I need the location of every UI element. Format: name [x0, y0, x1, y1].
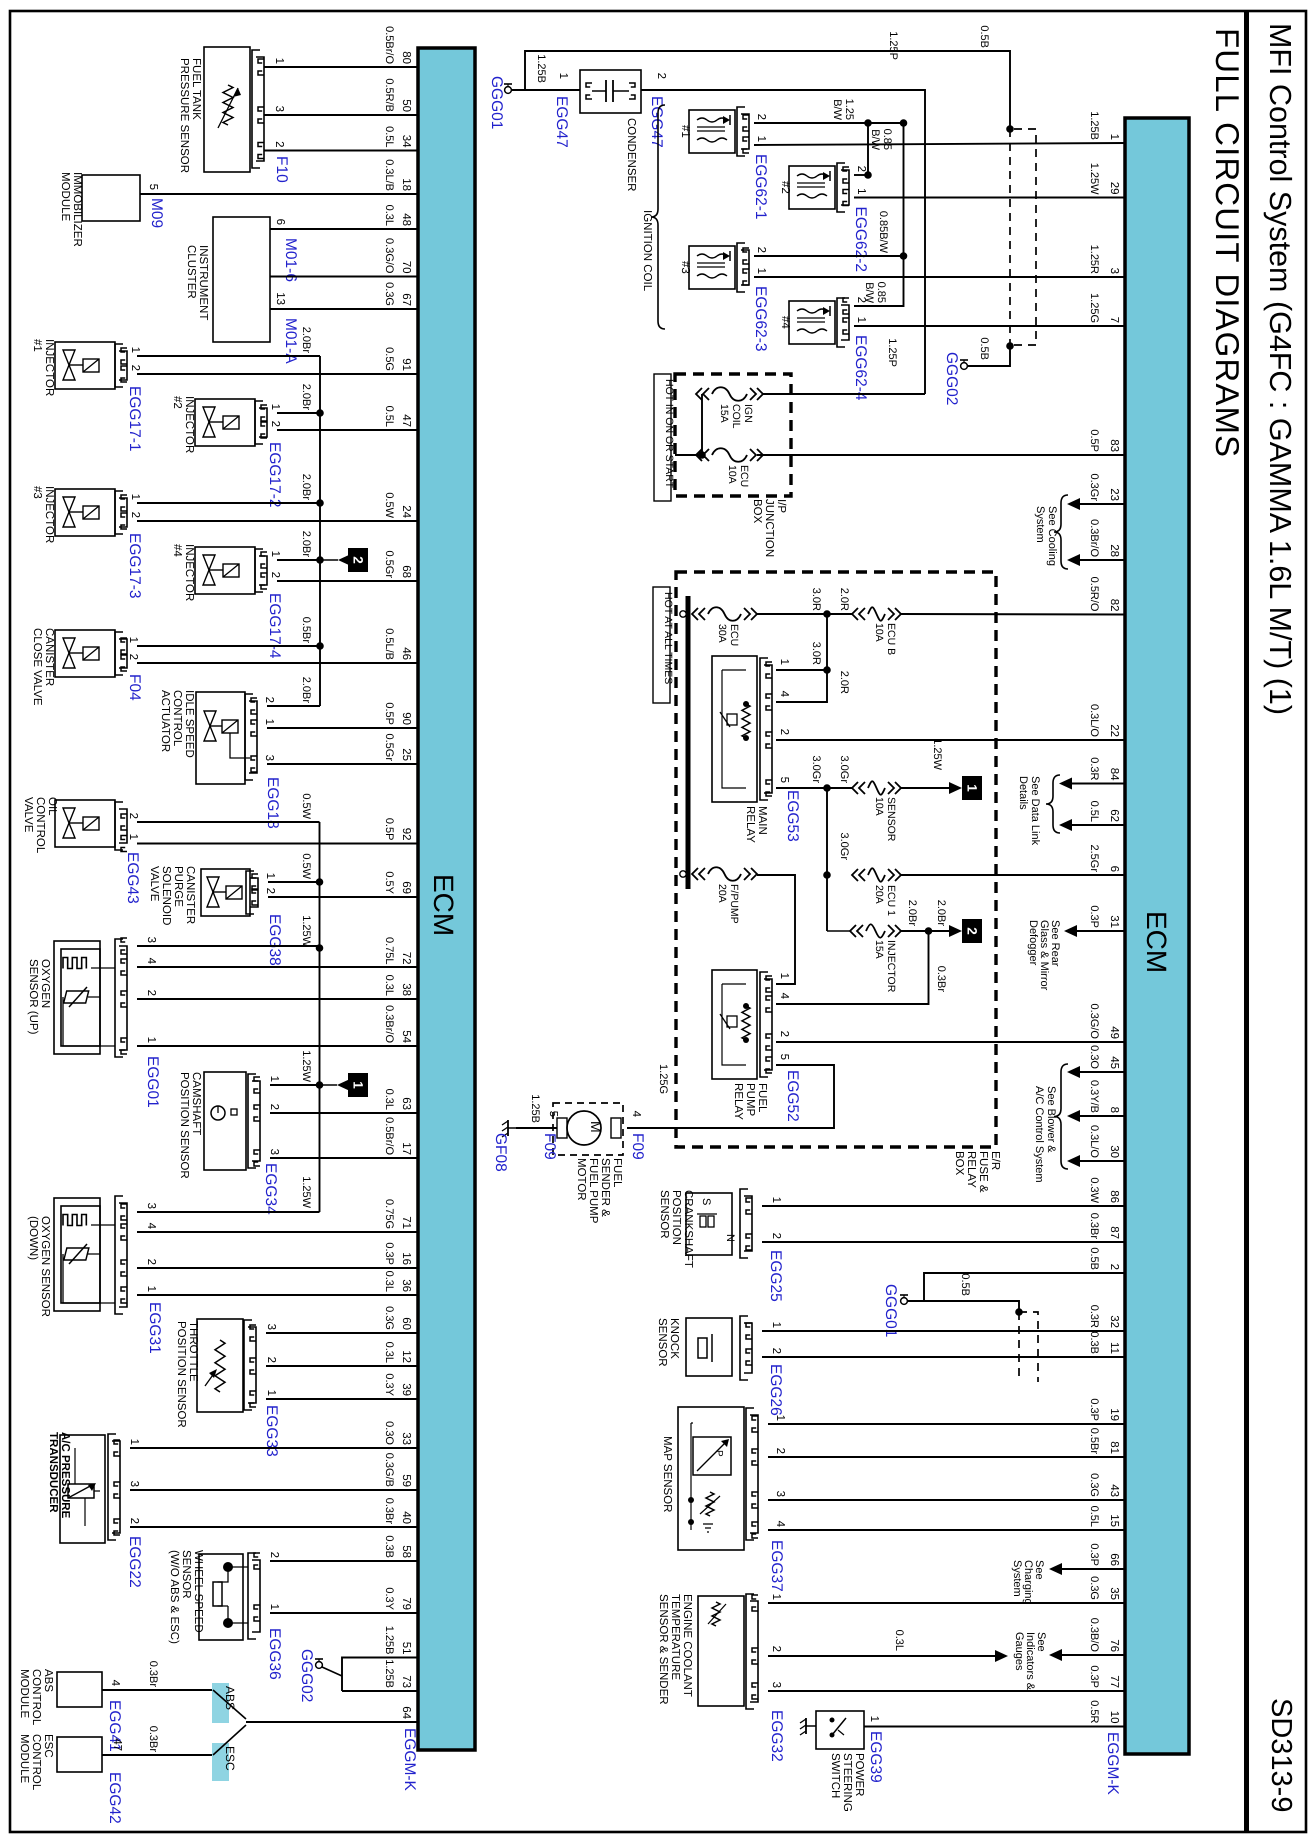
svg-text:2: 2	[778, 1031, 790, 1037]
svg-text:EGG47: EGG47	[648, 96, 665, 148]
wire EGG32 pin2 to indicators 0.3L	[768, 1630, 1008, 1662]
wire stub ECM 76 to indicators	[1049, 1649, 1125, 1661]
wire EGG37 pin4 to ECM 15	[768, 1529, 1125, 1531]
label 1.25W at O2 down branch	[300, 1176, 312, 1208]
svg-text:EGG43: EGG43	[124, 852, 141, 904]
svg-text:2.0Br: 2.0Br	[935, 900, 947, 927]
svg-text:0.3B: 0.3B	[1088, 1331, 1100, 1354]
svg-text:0.5Br/O: 0.5Br/O	[383, 1117, 395, 1155]
svg-text:2: 2	[145, 990, 157, 996]
wire EGG38 pin1 to 0.5W bus	[268, 853, 323, 885]
svg-text:4: 4	[778, 993, 790, 1000]
wire ECM 73 to ground GGG02	[342, 1690, 418, 1692]
svg-text:3: 3	[263, 755, 275, 761]
svg-text:1.25P: 1.25P	[886, 338, 898, 367]
svg-text:GF08: GF08	[492, 1133, 509, 1172]
title: SD313-9	[1265, 1698, 1297, 1812]
svg-text:1: 1	[273, 58, 285, 64]
svg-text:1.25W: 1.25W	[300, 915, 312, 947]
svg-text:36: 36	[400, 1279, 412, 1292]
wire coil2 pin2 to B/W bus	[854, 123, 893, 179]
svg-text:0.5W: 0.5W	[300, 853, 312, 879]
option label ABS	[212, 1683, 237, 1723]
svg-text:EGG36: EGG36	[266, 1628, 283, 1680]
ground GGG02 (left)	[298, 1649, 342, 1702]
wire F04 pin2 to ECM 46	[137, 662, 418, 664]
svg-text:0.85B/W: 0.85B/W	[869, 129, 893, 151]
svg-text:2.0Br: 2.0Br	[300, 384, 312, 411]
wire EGG32 pin3 to ECM 77	[768, 1690, 1125, 1692]
svg-text:0.5P: 0.5P	[1088, 429, 1100, 452]
svg-text:F04: F04	[126, 674, 143, 701]
see indicators gauges note	[1013, 1632, 1047, 1691]
svg-text:EGG25: EGG25	[767, 1250, 784, 1302]
svg-text:3: 3	[128, 1481, 140, 1487]
svg-text:2: 2	[855, 166, 867, 172]
svg-text:0.5Br/O: 0.5Br/O	[383, 26, 395, 64]
svg-text:0.3L/O: 0.3L/O	[1088, 1125, 1100, 1158]
wire stub ECM 45 to blower	[1067, 1066, 1125, 1078]
svg-text:GGG02: GGG02	[943, 352, 960, 405]
svg-text:25: 25	[400, 748, 412, 761]
svg-text:15: 15	[1108, 1514, 1120, 1527]
wire injector4 pin2 to ECM 68	[277, 580, 418, 582]
svg-text:3: 3	[273, 106, 285, 112]
svg-text:4: 4	[109, 1680, 121, 1687]
svg-text:2.0Br: 2.0Br	[300, 677, 312, 704]
svg-text:83: 83	[1108, 439, 1120, 452]
MAP sensor EGG37	[661, 1407, 786, 1592]
svg-text:EGG47: EGG47	[553, 96, 570, 148]
svg-text:EGGM-K: EGGM-K	[1104, 1732, 1121, 1796]
wire EGG43 pin2 to 0.5W bus	[137, 793, 320, 822]
svg-text:0.5L: 0.5L	[1088, 1506, 1100, 1527]
ignition coil #4 EGG62-4	[779, 297, 869, 401]
wire EGG18 pin3 to ECM 25	[267, 763, 418, 765]
svg-text:77: 77	[1108, 1675, 1120, 1688]
svg-text:1: 1	[855, 317, 867, 323]
svg-text:50: 50	[400, 99, 412, 112]
svg-text:1: 1	[145, 1286, 157, 1292]
ground GGG01 (knock shield)	[882, 1284, 908, 1337]
svg-text:22: 22	[1108, 724, 1120, 737]
A/C pressure transducer EGG22	[47, 1432, 143, 1588]
svg-text:2.0Br: 2.0Br	[300, 327, 312, 354]
wire injector4 pin1 to 2.0Br bus	[277, 531, 324, 564]
svg-text:1.25W: 1.25W	[300, 1176, 312, 1208]
camshaft position sensor EGG34	[178, 1072, 280, 1215]
svg-text:HOT IN ON OR START: HOT IN ON OR START	[663, 379, 675, 489]
svg-text:6: 6	[274, 219, 286, 225]
option label ESC	[212, 1743, 237, 1781]
svg-text:8: 8	[1108, 1107, 1120, 1113]
svg-text:23: 23	[1108, 488, 1120, 501]
svg-text:1: 1	[755, 268, 767, 274]
fuel tank pressure sensor F10	[178, 47, 290, 183]
wire GF08 to fuel pump pin5	[516, 1094, 557, 1128]
svg-text:EGG62-1: EGG62-1	[752, 154, 769, 219]
svg-text:47: 47	[111, 1738, 123, 1751]
svg-text:13: 13	[274, 292, 286, 305]
svg-text:3: 3	[770, 1682, 782, 1688]
svg-text:0.3G/O: 0.3G/O	[383, 238, 395, 274]
svg-text:0.5R: 0.5R	[1088, 1700, 1100, 1723]
svg-text:1: 1	[127, 834, 139, 840]
svg-text:0.75G: 0.75G	[383, 1199, 395, 1229]
svg-text:1: 1	[128, 1439, 140, 1445]
wire stub ECM 66 to charging system	[1049, 1563, 1125, 1575]
connector label EGGM-K (left bar)	[401, 1728, 418, 1792]
wire coil4 pin2 to B/W bus	[854, 123, 904, 306]
svg-text:1: 1	[557, 73, 569, 79]
svg-text:0.3Y: 0.3Y	[383, 1373, 395, 1396]
svg-text:2.0R: 2.0R	[838, 671, 850, 694]
svg-text:EGG38: EGG38	[266, 914, 283, 966]
splice symbol 1 (right)	[901, 738, 982, 800]
svg-text:67: 67	[400, 293, 412, 306]
svg-text:60: 60	[400, 1317, 412, 1330]
svg-text:46: 46	[400, 647, 412, 660]
ECM connector bar (right)	[1125, 118, 1189, 1754]
E/R fuse and relay box (dashed)	[676, 572, 1001, 1193]
svg-text:2: 2	[755, 114, 767, 120]
svg-text:F10: F10	[273, 156, 290, 183]
right ECM pin number and wire code labels	[1088, 111, 1120, 1723]
ground GGG02 (top right)	[943, 337, 990, 405]
2.0Br injector common bus wire	[319, 356, 321, 706]
svg-text:80: 80	[400, 51, 412, 64]
svg-text:2: 2	[269, 572, 281, 578]
wire injector2 pin1 to 2.0Br bus	[277, 384, 324, 417]
svg-text:31: 31	[1108, 915, 1120, 928]
wire ECM 51 to ground GGG02	[342, 1658, 418, 1692]
wire EGG22 pin1 to ECM 33	[130, 1447, 418, 1449]
title: MFI Control System	[1263, 23, 1297, 715]
wire F04 pin1 to 0.5Br bus	[137, 617, 324, 650]
svg-text:0.3O: 0.3O	[1088, 1045, 1100, 1069]
svg-text:17: 17	[400, 1142, 412, 1155]
wire EGG33 pin1 to ECM 39	[266, 1398, 418, 1400]
svg-text:EGG17-3: EGG17-3	[126, 533, 143, 598]
svg-text:79: 79	[400, 1597, 412, 1610]
connector label EGG31	[146, 1302, 163, 1354]
svg-text:2: 2	[127, 813, 139, 819]
svg-text:0.3G: 0.3G	[383, 282, 395, 306]
I/P junction box (dashed)	[675, 374, 791, 557]
fuse ECU 30A	[692, 607, 757, 646]
svg-text:40: 40	[400, 1511, 412, 1524]
see data link details note	[1017, 775, 1060, 846]
svg-text:1: 1	[351, 1081, 366, 1089]
wire F/PUMP fuse to fuel pump relay pin1	[757, 875, 795, 984]
svg-text:0.3B/O: 0.3B/O	[1088, 1618, 1100, 1653]
svg-text:0.75L: 0.75L	[383, 937, 395, 965]
svg-text:2.0Br: 2.0Br	[300, 531, 312, 558]
wire EGG43 pin1 to ECM 92	[137, 843, 418, 845]
svg-text:ECM: ECM	[1141, 911, 1172, 973]
knock sensor EGG26	[656, 1316, 784, 1416]
svg-text:S: S	[700, 1198, 712, 1205]
svg-text:1: 1	[129, 494, 141, 500]
wire EGG36 pin1 to ECM 79	[270, 1612, 418, 1614]
svg-text:EGG62-4: EGG62-4	[852, 335, 869, 401]
svg-text:91: 91	[400, 358, 412, 371]
wire F10-2 to ECM 34	[264, 150, 418, 152]
instrument cluster M01	[185, 217, 299, 364]
ESC control module	[18, 1734, 123, 1824]
svg-text:16: 16	[400, 1252, 412, 1265]
svg-text:2.0Br: 2.0Br	[300, 474, 312, 501]
svg-text:1: 1	[855, 188, 867, 194]
svg-text:1.25B: 1.25B	[383, 1659, 395, 1688]
wire M09-5 to ECM 18	[140, 193, 418, 195]
connector label EGG01	[144, 1056, 161, 1108]
svg-text:73: 73	[400, 1675, 412, 1688]
svg-text:58: 58	[400, 1545, 412, 1558]
ignition coil #1 EGG62-1	[679, 107, 769, 219]
wire stub ECM 23 to cooling system	[1067, 498, 1125, 510]
svg-text:IGNITION COIL: IGNITION COIL	[641, 210, 653, 292]
svg-text:F09: F09	[541, 1133, 558, 1160]
svg-text:0.3L: 0.3L	[383, 1342, 395, 1363]
fuse INJECTOR 15A	[827, 924, 901, 992]
svg-text:30: 30	[1108, 1145, 1120, 1158]
svg-text:12: 12	[400, 1350, 412, 1363]
canister purge solenoid valve EGG38	[148, 866, 283, 966]
idle speed control actuator EGG18	[159, 690, 281, 829]
ECM connector bar (left)	[418, 48, 475, 1750]
svg-text:18: 18	[400, 178, 412, 191]
svg-text:4: 4	[774, 1521, 786, 1528]
svg-text:EGG62-2: EGG62-2	[852, 207, 869, 272]
svg-text:32: 32	[1108, 1315, 1120, 1328]
svg-text:0.3R: 0.3R	[1088, 757, 1100, 780]
svg-text:0.5W: 0.5W	[383, 492, 395, 518]
svg-text:2: 2	[264, 888, 276, 894]
svg-text:0.5Gr: 0.5Gr	[383, 733, 395, 761]
svg-text:1.25B/W: 1.25B/W	[831, 99, 855, 121]
svg-text:0.5Br: 0.5Br	[300, 617, 312, 644]
splice symbol 1 (sensor feed)	[320, 1073, 369, 1097]
svg-text:2: 2	[127, 654, 139, 660]
svg-text:66: 66	[1108, 1553, 1120, 1566]
wire EGG22 pin2 to ECM 40	[130, 1526, 418, 1528]
fuel sender and fuel pump motor F09	[541, 1103, 646, 1224]
wheel speed sensor EGG36	[168, 1550, 283, 1680]
wire EGG32 pin1 to ECM 35	[768, 1602, 1125, 1604]
sensor bus 3.0Gr down	[823, 788, 850, 931]
svg-text:2: 2	[351, 556, 366, 564]
wire ABS pin4 0.3Br	[102, 1661, 213, 1690]
svg-text:1: 1	[755, 136, 767, 142]
svg-text:1: 1	[774, 1415, 786, 1421]
see blower AC control note	[1033, 1064, 1068, 1183]
svg-text:1: 1	[778, 973, 790, 979]
svg-text:GGG02: GGG02	[298, 1649, 315, 1702]
wire EGG36 pin2 to ECM 58	[270, 1560, 418, 1562]
svg-text:29: 29	[1108, 182, 1120, 195]
svg-text:2: 2	[770, 1233, 782, 1239]
svg-text:90: 90	[400, 712, 412, 725]
svg-text:11: 11	[1108, 1342, 1120, 1354]
wire ESC pin47 0.3Br	[102, 1726, 213, 1755]
svg-text:M: M	[588, 1121, 604, 1133]
svg-text:0.5Y: 0.5Y	[383, 871, 395, 894]
wire ECU B 10A fuse to ECM 82	[901, 613, 1125, 616]
wire O2down pin3 to 1.25W bus	[137, 1211, 320, 1213]
wire EGG34 pin2 to ECM 63	[270, 1112, 418, 1114]
wire EGG26 pin1 to ECM 32	[762, 1330, 1125, 1332]
wire GGG02 to shield	[967, 346, 1010, 366]
svg-text:SD313-9: SD313-9	[1265, 1698, 1297, 1812]
svg-text:7: 7	[1108, 317, 1120, 323]
fuse SENSOR 10A	[852, 781, 901, 842]
svg-text:N: N	[724, 1234, 736, 1242]
svg-text:2: 2	[770, 1646, 782, 1652]
svg-text:0.5B: 0.5B	[978, 337, 990, 360]
svg-text:34: 34	[400, 135, 412, 148]
svg-text:4: 4	[630, 1111, 642, 1118]
see charging system note	[1011, 1560, 1045, 1605]
svg-text:0.5B: 0.5B	[959, 1273, 971, 1296]
svg-text:47: 47	[400, 414, 412, 427]
svg-text:3.0Gr: 3.0Gr	[838, 755, 850, 783]
svg-text:1.25W: 1.25W	[300, 1050, 312, 1082]
wire ECU 10A fuse to ECM 83	[757, 454, 1125, 456]
svg-text:0.3L: 0.3L	[383, 205, 395, 226]
svg-text:#4: #4	[779, 316, 791, 329]
svg-text:4: 4	[145, 1223, 157, 1230]
wire EGG34 pin1 to 1.25W bus	[270, 1050, 323, 1089]
svg-text:92: 92	[400, 828, 412, 841]
svg-text:48: 48	[400, 213, 412, 226]
svg-text:3: 3	[268, 1149, 280, 1155]
svg-text:2: 2	[129, 365, 141, 371]
wire fuel pump relay pin5 1.25G to fuel pump	[627, 1064, 834, 1128]
svg-text:0.3O: 0.3O	[383, 1421, 395, 1445]
svg-text:87: 87	[1108, 1226, 1120, 1239]
svg-text:0.3P: 0.3P	[383, 1242, 395, 1265]
svg-text:1: 1	[263, 719, 275, 725]
fuse ECU 10A	[696, 448, 763, 487]
svg-text:59: 59	[400, 1474, 412, 1487]
wire EGG22 pin3 to ECM 59	[130, 1489, 418, 1491]
svg-text:1: 1	[265, 1390, 277, 1396]
svg-text:68: 68	[400, 565, 412, 578]
oil control valve EGG43	[22, 797, 141, 904]
svg-text:0.5R/O: 0.5R/O	[1088, 577, 1100, 612]
svg-text:0.5G: 0.5G	[383, 347, 395, 371]
svg-text:1.25B: 1.25B	[535, 54, 547, 83]
svg-text:0.5Br: 0.5Br	[1088, 1428, 1100, 1455]
wire ECU 30A to ECU B fuse and relay	[757, 588, 852, 618]
svg-text:1.25P: 1.25P	[887, 31, 899, 60]
svg-text:EGG53: EGG53	[784, 790, 801, 842]
svg-text:19: 19	[1108, 1408, 1120, 1421]
ignition coil #3 EGG62-3	[679, 243, 769, 351]
svg-text:GGG01: GGG01	[488, 76, 505, 129]
wire injector3 pin2 to ECM 24	[137, 520, 418, 522]
svg-text:0.3W: 0.3W	[1088, 1177, 1100, 1203]
svg-text:2: 2	[755, 247, 767, 253]
svg-text:43: 43	[1108, 1484, 1120, 1497]
svg-text:1.25W: 1.25W	[1088, 163, 1100, 195]
svg-text:0.3Br/O: 0.3Br/O	[383, 1005, 395, 1043]
svg-text:3: 3	[774, 1491, 786, 1497]
svg-text:0.3P: 0.3P	[1088, 1665, 1100, 1688]
svg-text:#1: #1	[679, 125, 691, 138]
wire EGG37 pin3 to ECM 43	[768, 1499, 1125, 1501]
svg-text:6: 6	[1108, 866, 1120, 872]
immobilizer module M09	[59, 172, 165, 247]
svg-text:EGG62-3: EGG62-3	[752, 286, 769, 351]
svg-text:3.0Gr: 3.0Gr	[838, 832, 850, 860]
wire coil3 pin2 to B/W bus	[754, 211, 907, 260]
svg-text:0.5L: 0.5L	[1088, 801, 1100, 822]
svg-text:0.3Gr: 0.3Gr	[1088, 473, 1100, 501]
svg-text:81: 81	[1108, 1441, 1120, 1454]
left ECM pin number and wire code labels	[383, 26, 412, 1720]
wire ECU 1 fuse to ECM 6	[901, 874, 1125, 876]
svg-text:0.3Br: 0.3Br	[383, 1498, 395, 1525]
svg-text:1: 1	[268, 1076, 280, 1082]
condenser EGG47	[553, 70, 667, 191]
wire EGG33 pin2 to ECM 12	[266, 1365, 418, 1367]
splice symbol 2 (right)	[901, 900, 982, 943]
wire EGG18 pin2 to 2.0Br bus	[267, 677, 320, 706]
svg-text:0.3Br/O: 0.3Br/O	[1088, 519, 1100, 557]
svg-text:3: 3	[265, 1324, 277, 1330]
svg-text:0.5P: 0.5P	[383, 702, 395, 725]
svg-text:ABS: ABS	[223, 1686, 237, 1710]
svg-text:0.5B: 0.5B	[978, 25, 990, 48]
svg-text:EGG32: EGG32	[768, 1710, 785, 1762]
svg-text:0.3L: 0.3L	[383, 975, 395, 996]
wire EGG39 pin1 to ECM 10	[864, 1726, 1125, 1728]
svg-text:0.5L/B: 0.5L/B	[383, 628, 395, 660]
svg-text:0.85B/W: 0.85B/W	[863, 282, 887, 304]
svg-text:1: 1	[778, 659, 790, 665]
svg-text:10: 10	[1108, 1711, 1120, 1724]
power steering switch EGG39	[816, 1711, 884, 1812]
crankshaft position sensor EGG25	[658, 1189, 784, 1302]
fuse F/PUMP 20A	[692, 867, 757, 881]
injector #2 EGG17-2	[171, 396, 283, 507]
svg-text:0.3P: 0.3P	[1088, 1398, 1100, 1421]
label HOT AT ALL TIMES	[653, 587, 674, 703]
wire relay feed 3.0R	[776, 614, 850, 702]
svg-text:2: 2	[129, 512, 141, 518]
wire EGG25 pin1 to ECM 86	[762, 1205, 1125, 1207]
svg-text:0.3R: 0.3R	[1088, 1305, 1100, 1328]
svg-text:EGG18: EGG18	[264, 777, 281, 829]
svg-text:63: 63	[400, 1097, 412, 1110]
svg-text:4: 4	[145, 958, 157, 965]
svg-text:CONDENSER: CONDENSER	[625, 118, 637, 191]
svg-text:GGG01: GGG01	[882, 1284, 899, 1337]
svg-text:33: 33	[400, 1432, 412, 1445]
svg-text:EGG31: EGG31	[146, 1302, 163, 1354]
svg-text:0.3L/B: 0.3L/B	[383, 159, 395, 191]
fuel relay EGG52	[712, 970, 801, 1122]
ground for power steering switch	[800, 1718, 816, 1735]
svg-text:49: 49	[1108, 1026, 1120, 1039]
svg-text:71: 71	[400, 1216, 412, 1229]
svg-text:2.0R: 2.0R	[838, 588, 850, 611]
svg-text:0.3Br: 0.3Br	[147, 1726, 159, 1753]
svg-text:0.5L: 0.5L	[383, 126, 395, 147]
svg-text:2.0Br: 2.0Br	[906, 900, 918, 927]
